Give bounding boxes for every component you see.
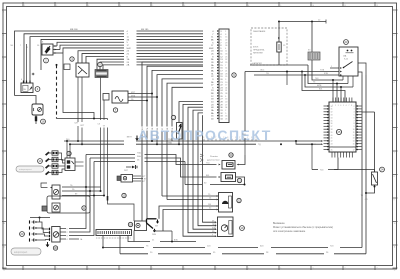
oxygen sensor heater bold wires [147,219,160,236]
ground point [46,242,50,247]
svg-text:5: 5 [152,268,153,270]
svg-text:21: 21 [225,70,227,72]
svg-text:11: 11 [353,132,355,134]
svg-text:10: 10 [3,223,5,225]
sensor B4 with wires [103,91,157,103]
circled number 30 [53,246,57,250]
svg-text:15: 15 [353,144,355,146]
svg-text:8: 8 [248,5,249,7]
junction dot [103,195,105,197]
svg-text:КЛВ: КЛВ [324,73,328,75]
spark plugs E1-E4 [30,217,51,242]
svg-text:18: 18 [225,54,227,56]
svg-text:36: 36 [331,123,333,125]
circled number 16 [41,119,46,124]
svg-text:22: 22 [225,39,227,41]
ignition switch S1 [330,47,366,87]
svg-text:ПРЕДОХРА-: ПРЕДОХРА- [253,49,265,52]
connector block X2 bottom [96,230,132,239]
svg-text:11: 11 [344,268,346,270]
svg-text:3: 3 [225,79,226,81]
svg-text:40: 40 [331,135,333,137]
junction dot [151,140,153,142]
svg-text:32: 32 [331,112,333,114]
svg-text:1: 1 [331,66,332,68]
svg-text:10: 10 [353,129,355,131]
wires lambda to ignition unit [159,194,217,231]
wire fan from connector to lower components [142,62,203,221]
svg-text:1: 1 [24,268,25,270]
svg-text:6: 6 [184,5,185,7]
svg-text:2: 2 [354,106,355,108]
svg-text:14: 14 [353,141,355,143]
wire ECU bottom to fuse [312,144,375,172]
junction dot [156,143,158,145]
wires from block down [103,236,196,254]
distributor with pins [212,217,233,237]
svg-text:35: 35 [331,120,333,122]
circled number 7 [113,108,117,112]
junction dot [280,143,282,145]
svg-text:11: 11 [225,51,227,53]
junction dot [244,184,246,186]
svg-text:2: 2 [67,232,68,234]
svg-text:или электронное зажигание: или электронное зажигание [273,230,306,233]
svg-text:диагностики: диагностики [207,160,220,162]
svg-text:28: 28 [225,73,227,75]
svg-text:12: 12 [394,270,396,272]
svg-text:9+12: 9+12 [344,59,348,61]
svg-text:4: 4 [225,48,226,50]
wire battery positive rail [279,20,326,24]
svg-text:autoprospect: autoprospect [19,168,32,171]
svg-text:7: 7 [225,65,226,67]
svg-text:44: 44 [331,146,333,148]
svg-text:43: 43 [331,144,333,146]
label capsule 2 [11,248,41,255]
junction dot [66,140,68,142]
circled number 2 [44,58,49,63]
svg-text:М4: М4 [11,45,14,47]
injector connector X6 [65,141,84,171]
diagnostic connector label [200,154,220,162]
svg-text:11: 11 [344,5,346,7]
svg-text:35: 35 [225,76,227,78]
junction dot [151,93,153,95]
svg-text:36: 36 [225,45,227,47]
svg-text:ЗМЛТ: ЗМЛТ [127,137,133,139]
svg-text:2: 2 [225,110,226,112]
svg-text:34: 34 [331,117,333,119]
svg-text:ОБС: ОБС [260,70,265,72]
svg-text:16: 16 [225,116,227,118]
svg-text:1: 1 [394,12,395,14]
svg-text:8: 8 [248,268,249,270]
svg-text:41: 41 [331,138,333,140]
svg-text:6: 6 [354,117,355,119]
svg-text:ЗАЖИГАНИЕ: ЗАЖИГАНИЕ [253,30,266,33]
valve Y2 connector [21,44,34,93]
svg-text:7: 7 [354,120,355,122]
svg-text:27: 27 [225,104,227,106]
injectors Y3-Y6 [45,151,65,175]
fuel pump M1 assembly [41,183,104,213]
svg-text:16: 16 [353,146,355,148]
svg-text:29: 29 [225,42,227,44]
ground point G1 [127,136,139,141]
svg-text:1: 1 [332,105,333,107]
junction dot [69,143,71,145]
svg-text:5: 5 [3,106,4,108]
junction dot [102,247,104,249]
svg-text:ТОВ: ТОВ [320,70,325,72]
svg-text:8: 8 [225,34,226,36]
wire rail lower 2 [120,252,366,254]
ignition module A2 [217,193,233,213]
sensor air temperature B6 [206,173,245,185]
junction dot [77,140,79,142]
svg-text:8: 8 [354,123,355,125]
wire rails upper right [242,70,339,155]
junction dot [56,64,58,66]
svg-text:9: 9 [280,5,281,7]
svg-text:1: 1 [3,12,4,14]
svg-text:7: 7 [349,105,350,107]
svg-text:42: 42 [331,141,333,143]
svg-text:20: 20 [225,102,227,104]
svg-text:4: 4 [120,5,121,7]
wire oxygen sensor to rail [153,231,172,242]
svg-text:12: 12 [376,268,378,270]
svg-text:13: 13 [353,138,355,140]
long rail wires to ECU [64,137,323,146]
wires to ECU top pins [302,22,353,103]
svg-text:7: 7 [3,153,4,155]
resistor R1 ballast [177,102,204,145]
svg-text:3: 3 [394,59,395,61]
svg-text:4: 4 [3,82,4,84]
svg-text:31: 31 [331,109,333,111]
circled number 5 [98,62,102,66]
svg-text:1: 1 [225,31,226,33]
svg-text:2: 2 [394,35,395,37]
junction dot [301,71,303,73]
svg-text:10: 10 [394,223,396,225]
circled number 29 [20,232,25,237]
svg-text:6: 6 [394,129,395,131]
svg-text:4: 4 [67,239,68,241]
svg-text:9: 9 [3,200,4,202]
svg-text:1: 1 [67,228,68,230]
junction dot [178,143,180,145]
svg-text:9: 9 [394,200,395,202]
fuse F2 right [362,112,378,193]
circled number 25 [336,129,341,134]
circled number 4 [70,57,74,61]
svg-text:7: 7 [216,268,217,270]
svg-text:10: 10 [225,82,227,84]
svg-text:3: 3 [88,5,89,7]
circled number 11 [67,151,71,155]
svg-text:4: 4 [340,105,341,107]
circled number 12 [171,115,175,119]
svg-text:МВ 186: МВ 186 [70,29,78,31]
svg-text:+БАТАРЕЯ: +БАТАРЕЯ [252,62,263,65]
svg-text:АВТОПРОСПЕКТ: АВТОПРОСПЕКТ [138,127,272,143]
svg-text:23: 23 [225,118,227,120]
svg-text:МЛВ: МЛВ [317,85,322,87]
circled number 20 [229,153,233,157]
circled number 24 [380,167,385,172]
circled number 18 [128,222,132,226]
svg-text:2: 2 [56,5,57,7]
svg-text:autoprospect: autoprospect [14,251,28,254]
svg-text:6: 6 [346,105,347,107]
junction dot [171,241,173,243]
svg-text:10: 10 [312,268,314,270]
sensor B1 with pins [42,42,63,56]
svg-text:2: 2 [56,268,57,270]
circled number 15 [122,193,126,197]
svg-text:МЧ2: МЧ2 [209,48,214,50]
throttle mechanical link [57,53,108,119]
wire id labels left buses [11,45,41,49]
svg-text:8: 8 [351,105,352,107]
svg-text:10: 10 [312,5,314,7]
svg-text:39: 39 [225,62,227,64]
sensor B8 temperature [117,175,148,183]
svg-text:БЛОК: БЛОК [253,47,259,49]
svg-text:6: 6 [3,129,4,131]
svg-text:5: 5 [152,5,153,7]
svg-text:3: 3 [3,59,4,61]
svg-text:Может устанавливаться обычное: Может устанавливаться обычное (с прерыва… [273,226,333,229]
svg-text:12: 12 [376,5,378,7]
sensor coolant temperature B5 [206,155,245,169]
svg-text:4: 4 [354,112,355,114]
svg-text:8: 8 [394,176,395,178]
junction dot [374,186,376,188]
ECU main connector strip X1 with pin rows [209,29,229,123]
svg-text:15: 15 [225,37,227,39]
svg-text:39: 39 [331,132,333,134]
connector X9 grey [308,50,320,61]
svg-text:2: 2 [3,35,4,37]
svg-text:38: 38 [225,93,227,95]
circled number 3 [35,87,40,92]
svg-text:38: 38 [331,129,333,131]
svg-text:2: 2 [335,105,336,107]
svg-text:5: 5 [394,106,395,108]
svg-text:8: 8 [3,176,4,178]
svg-text:1: 1 [24,5,25,7]
note text [273,222,333,233]
junction dot [311,21,313,23]
wire staircase from connector to ignition components [183,104,216,236]
svg-text:ЗМ: ЗМ [208,204,211,206]
wire bundle top-left to connector [15,29,204,96]
svg-text:5: 5 [354,115,355,117]
svg-text:17: 17 [353,149,355,151]
circled number 19 [240,226,245,231]
svg-text:НИТЕЛЕЙ: НИТЕЛЕЙ [253,52,263,55]
wire rail lower 1 [103,246,362,248]
ignition coil T1 [50,227,83,243]
svg-text:75Д: 75Д [242,134,246,136]
svg-text:45: 45 [331,149,333,151]
relay K3 [75,63,90,144]
svg-text:11: 11 [3,247,5,249]
svg-text:11: 11 [394,247,396,249]
svg-text:Внимание: Внимание [273,222,285,225]
svg-text:7: 7 [20,45,21,47]
svg-text:9: 9 [225,113,226,115]
junction dot [286,71,288,73]
svg-text:4: 4 [120,268,121,270]
svg-text:5: 5 [343,105,344,107]
svg-text:12: 12 [353,135,355,137]
sensor knock B7 [134,221,147,242]
svg-text:7: 7 [216,5,217,7]
junction dot [278,21,280,23]
svg-text:3: 3 [67,235,68,237]
circled number 22 [237,198,241,202]
circled number 21 [237,178,241,182]
junction dot [93,118,95,120]
wire right vertical buses [361,75,369,254]
svg-text:9: 9 [354,126,355,128]
circled number 10 [38,159,43,164]
svg-text:7: 7 [394,153,395,155]
svg-text:3: 3 [354,109,355,111]
junction dot [100,190,102,192]
svg-text:24: 24 [225,87,227,89]
svg-text:9: 9 [280,268,281,270]
ground point G2 [124,165,137,172]
svg-text:34: 34 [225,107,227,109]
svg-text:33: 33 [331,115,333,117]
circled number 23 [344,40,349,45]
wires sensor loop pump to sensors [69,152,217,236]
svg-text:ЗМ: ЗМ [155,225,158,227]
svg-text:17: 17 [225,85,227,87]
svg-text:14: 14 [225,68,227,70]
svg-text:МЗБ: МЗБ [131,95,136,97]
svg-text:3: 3 [88,268,89,270]
ECU control module A1 [324,98,362,158]
junction dot [304,74,306,76]
svg-text:25: 25 [225,56,227,58]
svg-text:6: 6 [184,268,185,270]
junction dot [146,100,148,102]
label capsule 1 [16,166,44,172]
svg-text:4: 4 [394,82,395,84]
svg-text:3: 3 [338,105,339,107]
fuse box F with battery feed [250,22,308,66]
svg-text:6: 6 [225,96,226,98]
svg-text:32: 32 [225,59,227,61]
svg-text:13: 13 [225,99,227,101]
junction dot [311,143,313,145]
junction dot [81,143,83,145]
svg-text:31: 31 [225,90,227,92]
junction dot [156,96,158,98]
junction dot [365,192,367,194]
svg-text:Разъём: Разъём [210,156,218,158]
sensor B2 throttle position [15,96,44,125]
svg-text:12: 12 [3,270,5,272]
circled number 9 [232,73,236,77]
wire sensor common [185,162,245,185]
svg-text:37: 37 [331,126,333,128]
circled number 13 [82,206,86,210]
connector X5 grey [95,70,134,222]
